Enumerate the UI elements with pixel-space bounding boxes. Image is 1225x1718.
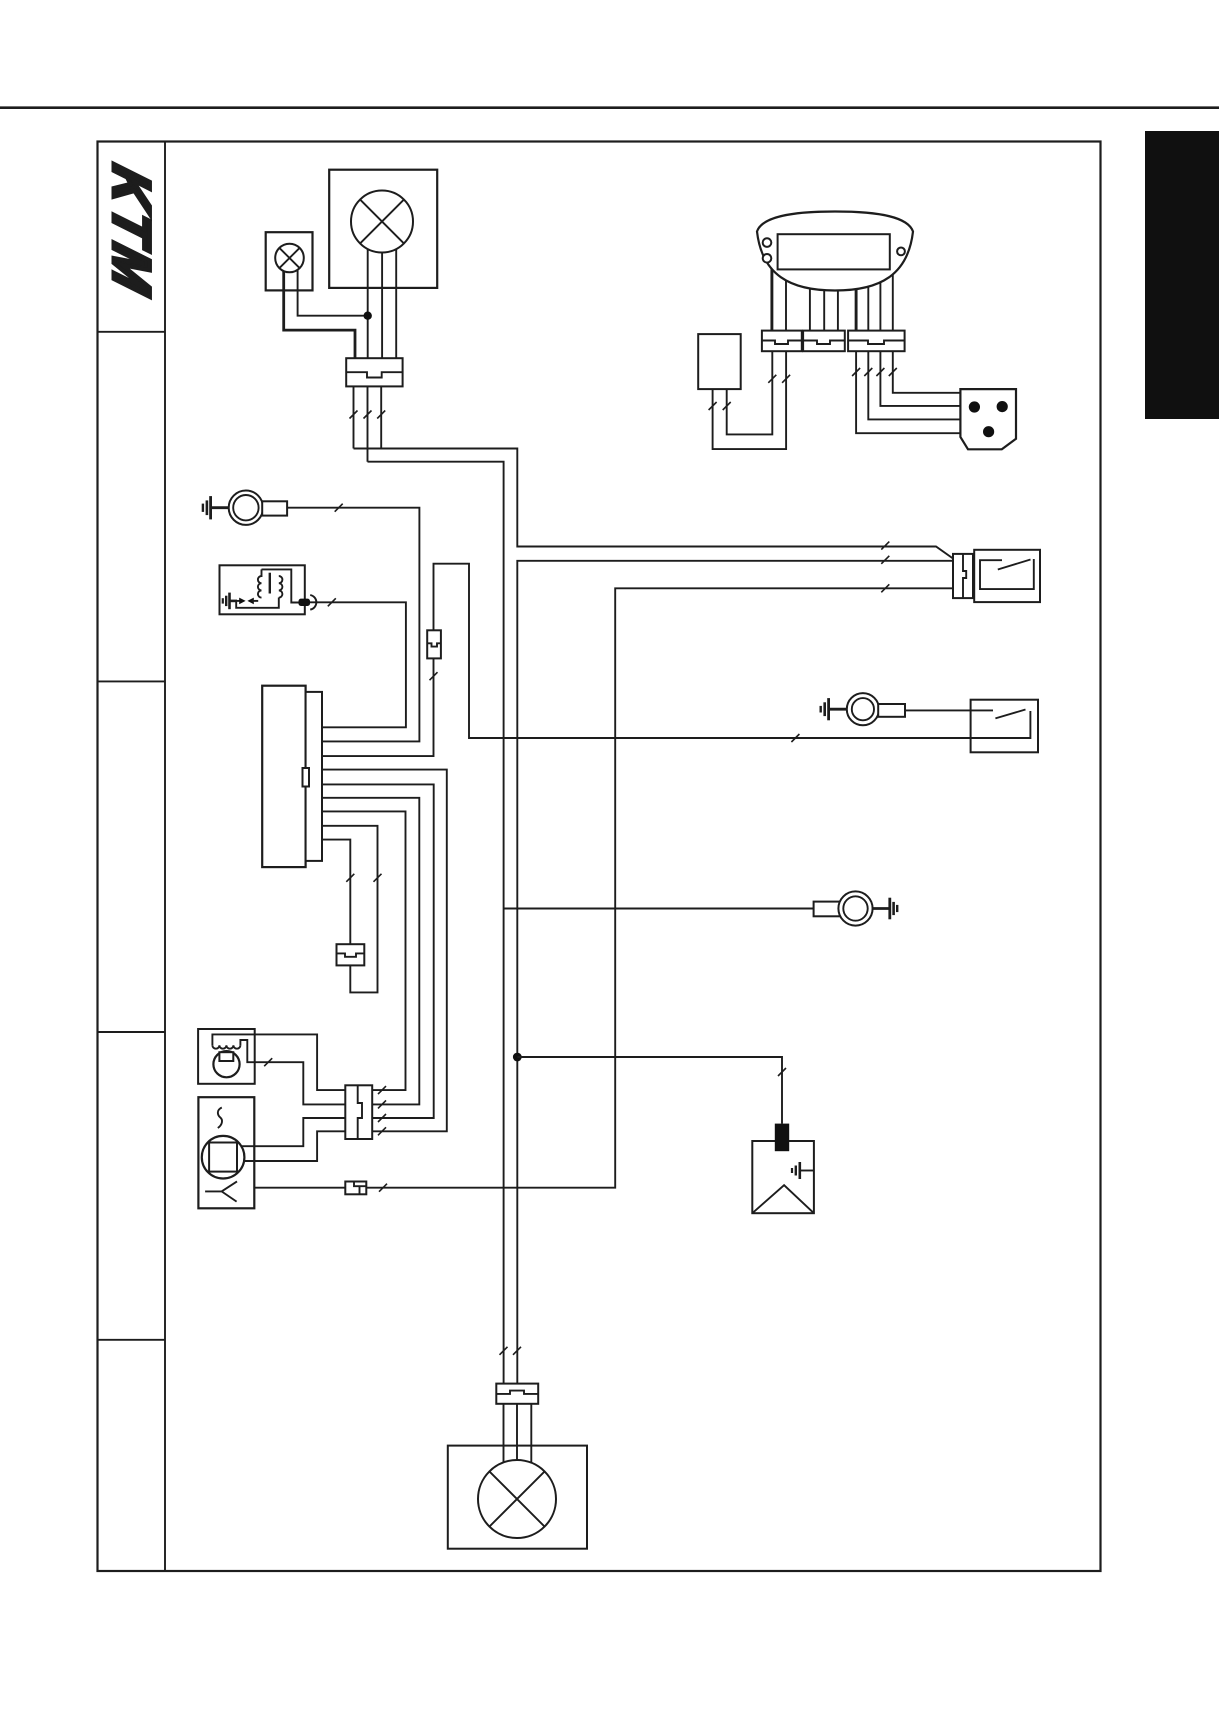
wire: fan motor lead2 to fan connector pin4 <box>244 1131 345 1161</box>
wire: speedo connector3 to 3-pin plug lead4 <box>893 351 961 393</box>
inline fuse <box>345 1182 366 1195</box>
wire: horn terminal to generator lead2 <box>287 508 419 742</box>
speedo connector 2 <box>803 331 845 352</box>
sidebar column <box>164 142 166 1572</box>
wire: right bus junction to spark plug cap <box>517 1057 782 1124</box>
tail light housing <box>448 1446 587 1549</box>
speedometer display <box>778 234 890 269</box>
svg-text:KTM: KTM <box>102 159 161 304</box>
ignition coil windings <box>236 569 300 607</box>
black side tab <box>1145 131 1219 419</box>
fan 4-pin connector <box>345 1085 372 1139</box>
parking lamp <box>275 244 304 273</box>
wire: generator lead6 to fan connector pin2 <box>322 798 419 1105</box>
ignition coil HT terminal <box>299 595 317 610</box>
headlight housing <box>329 170 437 288</box>
junction dot right bus / spark feed <box>513 1053 522 1062</box>
speedo connector 3 <box>848 331 905 352</box>
wire: speedometer leads group B <box>810 268 838 331</box>
tail light wires inside housing <box>504 1446 532 1463</box>
wire: parking lamp right lead to junction <box>298 270 368 316</box>
speedo ignition pickup box <box>698 334 741 389</box>
headlight lamp <box>351 191 413 253</box>
ground: horn <box>203 496 230 519</box>
headlight connector <box>346 358 402 386</box>
wire: speedo connector3 to 3-pin plug lead2 <box>868 351 960 419</box>
wire: left bus to brake ground terminal <box>504 908 814 910</box>
kill switch ring terminal <box>847 693 905 725</box>
tail light connector <box>496 1384 538 1404</box>
condenser <box>337 944 365 965</box>
ignition coil spark gap arrows <box>237 598 258 605</box>
speedometer housing <box>757 212 913 291</box>
junction dot parking/headlight <box>364 312 372 320</box>
wire: main switch pin2 to right bus down to tail light <box>517 561 953 1384</box>
wire: generator lead5 to fan connector pin3 <box>322 784 434 1118</box>
wire: speedo connector1 loop to ignition box, outer <box>713 351 787 449</box>
wire: headlight connector down-leads <box>354 386 382 461</box>
wire: harness to main switch pin1 <box>354 449 954 559</box>
spark plug <box>752 1124 814 1214</box>
main border frame <box>98 142 1101 1572</box>
ground: brake terminal <box>872 898 897 920</box>
wire: generator lead7 to fan connector pin1 <box>322 811 406 1090</box>
wire: left bus to tail light <box>368 462 504 1384</box>
wire: thermo switch lead1 to fan connector pin1 <box>255 1034 346 1090</box>
wire: generator lead9 to condenser top <box>322 840 350 945</box>
wire: speedo connector3 to 3-pin plug lead1 <box>856 351 960 433</box>
wire: headlight lamp to connector, 3 leads <box>368 249 397 358</box>
wire: tail light bus into connector and lamp <box>504 1404 532 1463</box>
wire: generator lead4 to fan connector pin4 <box>322 770 447 1132</box>
kill switch <box>971 700 1038 753</box>
wire: speedo connector1 loop to ignition box, inner <box>727 351 773 434</box>
fan motor box <box>198 1097 254 1208</box>
inline connector kill wire <box>427 630 441 658</box>
wire: fan motor to inline fuse <box>254 1187 345 1189</box>
top rule <box>0 106 1219 109</box>
wire: kill switch terminal lead <box>905 709 993 711</box>
wire: generator lead8 to condenser bottom <box>322 826 378 993</box>
wire: speedometer leads group C <box>868 258 893 331</box>
generator / magneto <box>262 686 322 867</box>
wire: speedo connector3 to 3-pin plug lead3 <box>880 351 960 406</box>
horn ring terminal <box>229 491 287 525</box>
wire: ignition coil output to generator lead1 <box>309 602 406 727</box>
ground: kill switch <box>821 698 847 720</box>
main switch <box>974 550 1040 602</box>
3-pin diagnostic plug <box>960 389 1016 449</box>
speedo connector 1 <box>762 331 802 352</box>
ignition coil box <box>220 565 305 614</box>
wire: thermo switch lead2 to fan connector pin2 <box>255 1062 346 1104</box>
brake ground ring terminal <box>814 891 873 925</box>
ground: ignition coil internal <box>223 593 237 610</box>
wire: kill switch return via inline connector to generator lead3 <box>322 564 1030 756</box>
wire: parking lamp left lead to connector <box>284 271 355 358</box>
thermo switch box <box>198 1029 255 1084</box>
wire: fan motor lead1 to fan connector pin3 <box>241 1118 345 1146</box>
tail light lamp <box>478 1460 556 1538</box>
wire: speedometer leads group A <box>785 260 787 331</box>
KTM logo <box>102 159 161 304</box>
wire: fan fuse line to main switch pin3 <box>366 588 953 1187</box>
parking lamp housing <box>266 232 313 290</box>
wire code ticks <box>264 368 897 1355</box>
main switch connector <box>953 554 973 598</box>
speedometer mounting holes <box>763 238 905 262</box>
